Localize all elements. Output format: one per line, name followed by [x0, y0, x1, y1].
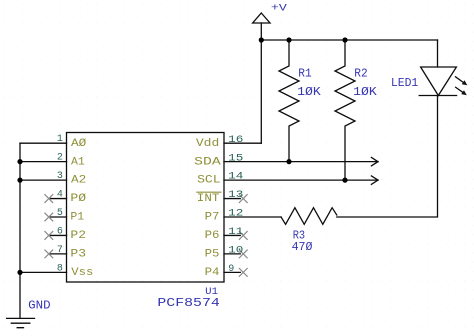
svg-text:R1: R1 — [298, 66, 311, 80]
LED1 cathode bar — [419, 95, 456, 97]
wire pin12 P7 to R3 — [224, 216, 281, 218]
wire pin16 Vdd — [224, 142, 261, 144]
resistor R2 body — [335, 40, 355, 180]
svg-text:2: 2 — [57, 153, 63, 164]
svg-text:3: 3 — [57, 171, 63, 182]
pin 11 stub — [224, 234, 240, 236]
wire R3 to LED cathode — [337, 96, 438, 218]
+V riser wire — [260, 23, 262, 143]
wire pin1 A0 to bus — [20, 142, 67, 144]
svg-text:5: 5 — [57, 208, 63, 219]
svg-text:R2: R2 — [354, 66, 367, 80]
svg-text:4: 4 — [57, 189, 63, 200]
svg-text:13: 13 — [228, 190, 243, 201]
svg-text:LED1: LED1 — [391, 76, 418, 90]
svg-text:14: 14 — [228, 172, 243, 183]
svg-text:P2: P2 — [70, 230, 86, 242]
svg-text:1: 1 — [57, 134, 63, 145]
no-connect X marks — [44, 194, 247, 277]
svg-text:PØ: PØ — [70, 193, 86, 205]
svg-text:SDA: SDA — [194, 156, 221, 168]
resistor R1 body — [279, 40, 299, 162]
svg-text:P3: P3 — [70, 249, 86, 261]
wire SCL pin14 — [224, 179, 378, 181]
wire pin3 A2 to bus — [20, 179, 67, 181]
svg-text:1ØK: 1ØK — [353, 85, 377, 99]
pin 13 stub — [224, 198, 240, 200]
svg-text:A1: A1 — [71, 156, 85, 168]
svg-text:SCL: SCL — [197, 175, 221, 187]
wire SDA pin15 — [224, 161, 378, 163]
SDA arrowhead — [371, 157, 378, 165]
svg-text:A2: A2 — [71, 175, 86, 187]
svg-text:7: 7 — [57, 245, 63, 256]
svg-text:1ØK: 1ØK — [297, 85, 321, 99]
pin 5 stub — [51, 216, 67, 218]
LED1 light arrow 1 — [456, 77, 464, 83]
LED1 arrowhead 1 — [462, 80, 468, 85]
svg-text:P1: P1 — [70, 212, 84, 224]
svg-text:10: 10 — [228, 246, 243, 257]
ground symbol — [7, 318, 35, 327]
svg-text:PCF8574: PCF8574 — [157, 296, 219, 310]
svg-text:GND: GND — [28, 299, 50, 313]
svg-text:+V: +V — [271, 3, 288, 15]
svg-text:47Ø: 47Ø — [292, 240, 313, 254]
svg-text:8: 8 — [57, 263, 63, 274]
svg-text:Vdd: Vdd — [196, 138, 219, 150]
ground bus wire — [19, 143, 21, 318]
svg-text:P6: P6 — [205, 230, 220, 242]
svg-text:15: 15 — [228, 153, 243, 164]
IC U1 body — [67, 133, 225, 283]
svg-text:P7: P7 — [205, 212, 220, 224]
+V symbol triangle — [253, 13, 270, 23]
svg-text:6: 6 — [57, 226, 63, 237]
LED1 triangle — [421, 67, 457, 96]
svg-text:AØ: AØ — [71, 138, 87, 150]
svg-text:12: 12 — [228, 209, 243, 220]
svg-text:P5: P5 — [205, 249, 220, 261]
LED1 arrowhead 2 — [461, 90, 467, 95]
pin 6 stub — [51, 234, 67, 236]
pin 7 stub — [51, 253, 67, 255]
LED1 light arrow 2 — [456, 87, 463, 92]
svg-text:11: 11 — [228, 227, 243, 238]
svg-text:16: 16 — [228, 135, 243, 146]
pin 9 stub — [224, 271, 240, 273]
INT overline — [197, 191, 221, 193]
svg-text:INT: INT — [197, 193, 220, 205]
power rail wire — [261, 39, 437, 41]
wire pin2 A1 to bus — [20, 161, 67, 163]
pin 10 stub — [224, 253, 240, 255]
svg-text:Vss: Vss — [71, 267, 93, 279]
svg-text:9: 9 — [228, 264, 234, 275]
SCL arrowhead — [371, 176, 378, 184]
wire LED anode to rail — [437, 40, 439, 67]
pin 4 stub — [51, 198, 67, 200]
resistor R3 body — [281, 208, 337, 225]
wire pin8 Vss to bus — [20, 271, 67, 273]
svg-text:P4: P4 — [205, 267, 220, 279]
